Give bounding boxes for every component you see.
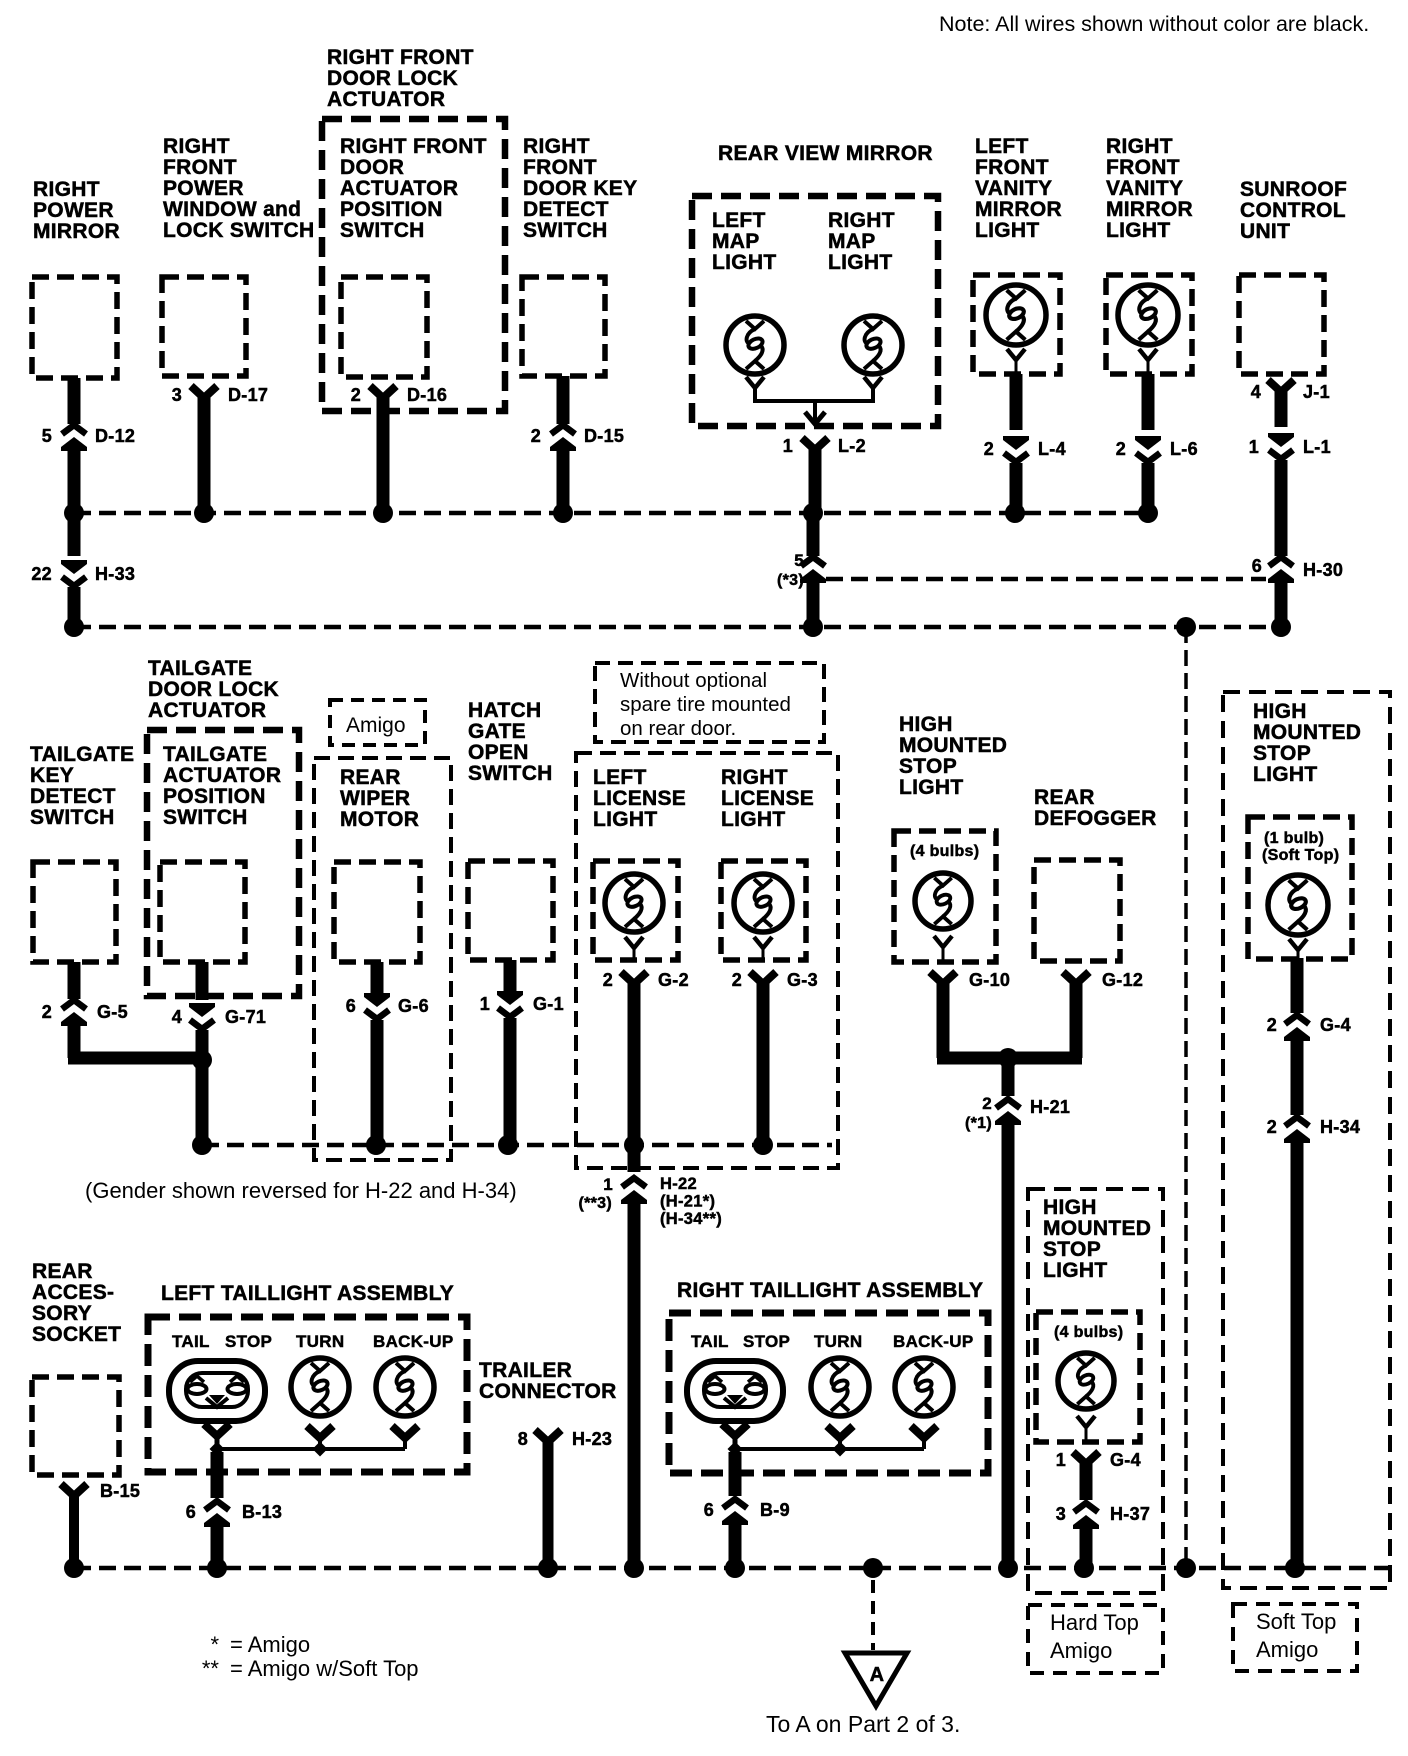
svg-text:B-15: B-15 bbox=[100, 1481, 140, 1501]
wire G-6 to mid bus bbox=[371, 1020, 384, 1145]
component HATCH GATE OPEN SWITCH box bbox=[468, 861, 553, 960]
svg-text:H-21: H-21 bbox=[1030, 1097, 1070, 1117]
wire to connector *3 bbox=[807, 513, 820, 556]
connector B-15 bbox=[61, 1484, 87, 1496]
node bottom bus H-37 bbox=[1074, 1558, 1094, 1578]
connector fork right tail stop bbox=[722, 1424, 748, 1436]
wire L-6 to bus node bbox=[1142, 463, 1155, 513]
connector D-17 pin 3 bbox=[191, 386, 217, 398]
svg-text:(4 bulbs): (4 bulbs) bbox=[910, 843, 979, 860]
bulb right map light bbox=[844, 316, 902, 374]
wire G-12 elbow to junction bbox=[1070, 980, 1083, 1058]
svg-text:TURN: TURN bbox=[814, 1332, 862, 1351]
bulb soft top stop light bbox=[1268, 875, 1328, 935]
svg-text:22: 22 bbox=[31, 564, 52, 584]
component RIGHT FRONT POWER WINDOW and LOCK SWITCH box bbox=[162, 277, 246, 376]
svg-text:**: ** bbox=[202, 1656, 220, 1681]
connector B-9 pin 6 bbox=[722, 1499, 748, 1525]
svg-text:2: 2 bbox=[1267, 1117, 1277, 1137]
bus wire upper (connector row) bbox=[74, 511, 1148, 516]
svg-text:H-30: H-30 bbox=[1303, 560, 1343, 580]
svg-text:To A on Part 2 of 3.: To A on Part 2 of 3. bbox=[766, 1711, 960, 1737]
bulb left vanity light bbox=[986, 285, 1046, 345]
svg-text:= Amigo: = Amigo bbox=[230, 1632, 310, 1657]
svg-text:6: 6 bbox=[1252, 556, 1262, 576]
bus wire lower bbox=[74, 625, 1281, 630]
node G-1 mid bus junction bbox=[498, 1135, 518, 1155]
connector H-23 pin 8 bbox=[535, 1430, 561, 1442]
node D-17 bus junction bbox=[194, 503, 214, 523]
node bottom bus riser bbox=[1176, 1558, 1196, 1578]
svg-text:1: 1 bbox=[480, 994, 490, 1014]
wire junction to H-21 bbox=[1002, 1058, 1015, 1096]
wire key detect to G-5 bbox=[68, 962, 81, 999]
svg-text:D-15: D-15 bbox=[584, 426, 624, 446]
node G-3 mid bus junction bbox=[753, 1135, 773, 1155]
svg-text:G-6: G-6 bbox=[398, 996, 429, 1016]
svg-text:2: 2 bbox=[984, 439, 994, 459]
node bottom bus A bbox=[863, 1558, 883, 1578]
wire H-37 to bottom bus bbox=[1080, 1528, 1093, 1568]
wire to off-page connector A bbox=[871, 1580, 875, 1650]
wire *3 connector to lower bus bbox=[807, 582, 820, 627]
bulb right vanity light bbox=[1118, 285, 1178, 345]
connector L-2 pin 1 bbox=[802, 438, 828, 450]
svg-text:LEFT TAILLIGHT ASSEMBLY: LEFT TAILLIGHT ASSEMBLY bbox=[161, 1282, 454, 1305]
svg-text:L-1: L-1 bbox=[1303, 437, 1331, 457]
node D-16 bus junction bbox=[373, 503, 393, 523]
wire B-9 to bottom bus bbox=[729, 1524, 742, 1568]
connector fork right turn bbox=[827, 1426, 853, 1438]
wire G-4 to H-37 bbox=[1080, 1460, 1093, 1500]
component TAILGATE DOOR LOCK ACTUATOR outer box bbox=[147, 730, 299, 996]
node bottom bus H-21 bbox=[998, 1558, 1018, 1578]
wire right map light lead bbox=[864, 377, 882, 388]
svg-text:B-13: B-13 bbox=[242, 1502, 282, 1522]
connector G-12 bbox=[1063, 972, 1089, 984]
connector G-71 pin 4 bbox=[189, 1003, 215, 1029]
component hard top outer box bbox=[1028, 1189, 1163, 1593]
wire D-15 to bus node bbox=[557, 450, 570, 513]
node lower bus branch junction bbox=[1176, 617, 1196, 637]
component RIGHT LICENSE LIGHT box bbox=[721, 861, 806, 960]
svg-text:TURN: TURN bbox=[296, 1332, 344, 1351]
bulb high mounted stop light bbox=[915, 873, 971, 929]
connector D-12 pin 5 bbox=[61, 425, 87, 451]
wire H-23 to bottom bus bbox=[543, 1438, 554, 1568]
svg-text:G-12: G-12 bbox=[1102, 970, 1143, 990]
bus wire *3 to H-30 bbox=[826, 577, 1266, 582]
svg-text:3: 3 bbox=[1056, 1504, 1066, 1524]
svg-text:A: A bbox=[870, 1664, 885, 1686]
connector G-5 pin 2 bbox=[61, 1000, 87, 1026]
svg-text:5: 5 bbox=[794, 551, 804, 570]
node bottom bus B-15 bbox=[64, 1558, 84, 1578]
svg-text:2: 2 bbox=[982, 1094, 992, 1113]
svg-text:6: 6 bbox=[346, 996, 356, 1016]
connector G-4 pin 1 hard top bbox=[1073, 1452, 1099, 1464]
connector H-30 pin 6 bbox=[1268, 557, 1294, 583]
svg-text:8: 8 bbox=[518, 1429, 528, 1449]
wire L-1 to H-30 bbox=[1275, 460, 1288, 556]
svg-text:H-33: H-33 bbox=[95, 564, 135, 584]
svg-text:H-37: H-37 bbox=[1110, 1504, 1150, 1524]
wire left map light lead bbox=[746, 377, 764, 388]
wire D-17 to bus node bbox=[198, 394, 211, 513]
wire L-4 to bus node bbox=[1010, 463, 1023, 513]
svg-text:G-71: G-71 bbox=[225, 1007, 266, 1027]
off-page connector A triangle bbox=[845, 1653, 907, 1706]
bus wire middle bbox=[202, 1143, 832, 1148]
svg-text:Amigo: Amigo bbox=[346, 714, 406, 737]
wire right power mirror to D-12 bbox=[68, 378, 81, 424]
wire key detect switch to D-15 bbox=[557, 376, 570, 424]
wire soft top bulb to G-4 bbox=[1291, 958, 1304, 1013]
svg-text:4: 4 bbox=[172, 1007, 182, 1027]
component soft top high mounted stop light outer box bbox=[1223, 692, 1390, 1588]
label Hard Top Amigo box bbox=[1028, 1605, 1163, 1673]
wire vanity left to L-4 bbox=[1010, 374, 1023, 430]
svg-text:L-4: L-4 bbox=[1038, 439, 1066, 459]
node rear view mirror lower bus junction bbox=[803, 617, 823, 637]
svg-text:BACK-UP: BACK-UP bbox=[893, 1332, 973, 1351]
svg-text:(Soft Top): (Soft Top) bbox=[1262, 847, 1339, 864]
svg-text:RIGHT TAILLIGHT ASSEMBLY: RIGHT TAILLIGHT ASSEMBLY bbox=[677, 1279, 983, 1302]
wire D-12 to bus node bbox=[68, 450, 81, 513]
svg-text:REAR VIEW MIRROR: REAR VIEW MIRROR bbox=[718, 142, 933, 165]
wire J-1 to L-1 bbox=[1275, 390, 1288, 427]
wire wiper motor to G-6 bbox=[371, 962, 384, 996]
connector H-34 pin 2 bbox=[1284, 1117, 1310, 1143]
svg-text:(1 bulb): (1 bulb) bbox=[1264, 830, 1324, 847]
component hard top stop light bulb box bbox=[1036, 1312, 1140, 1442]
svg-text:(*3): (*3) bbox=[777, 572, 804, 589]
svg-text:= Amigo w/Soft Top: = Amigo w/Soft Top bbox=[230, 1656, 419, 1681]
node bottom bus H-23 bbox=[538, 1558, 558, 1578]
svg-text:L-2: L-2 bbox=[838, 436, 866, 456]
node bottom bus B-13 bbox=[207, 1558, 227, 1578]
svg-text:1: 1 bbox=[1249, 437, 1259, 457]
svg-text:H-23: H-23 bbox=[572, 1429, 612, 1449]
connector G-1 pin 1 bbox=[497, 991, 523, 1017]
svg-text:TAIL: TAIL bbox=[172, 1332, 210, 1351]
bulb left tail stop dual bbox=[169, 1361, 265, 1421]
svg-text:STOP: STOP bbox=[743, 1332, 790, 1351]
wire H-21 to bottom bus bbox=[1002, 1124, 1015, 1568]
svg-text:6: 6 bbox=[186, 1502, 196, 1522]
node lower bus left junction bbox=[64, 617, 84, 637]
component RIGHT FRONT VANITY MIRROR LIGHT box bbox=[1106, 275, 1192, 374]
wire hatch switch to G-1 bbox=[504, 960, 517, 994]
wire B-15 to bottom bus bbox=[69, 1492, 79, 1568]
connector D-15 pin 2 bbox=[550, 425, 576, 451]
wire G-10 elbow to junction bbox=[937, 980, 950, 1058]
node L-4 bus junction bbox=[1005, 503, 1025, 523]
wire vanity right to L-6 bbox=[1142, 374, 1155, 430]
connector H-21 pin 2 (*1) bbox=[995, 1099, 1021, 1125]
component RIGHT FRONT DOOR KEY DETECT SWITCH box bbox=[522, 277, 605, 376]
svg-text:G-4: G-4 bbox=[1110, 1450, 1141, 1470]
wire map lights junction bbox=[755, 399, 873, 403]
component RIGHT FRONT DOOR ACTUATOR POSITION SWITCH box bbox=[341, 277, 427, 377]
connector L-1 pin 1 bbox=[1268, 433, 1294, 459]
svg-text:4: 4 bbox=[1251, 382, 1261, 402]
svg-text:2: 2 bbox=[531, 426, 541, 446]
connector fork right backup bbox=[911, 1426, 937, 1438]
bulb right backup bbox=[895, 1358, 953, 1416]
component REAR WIPER MOTOR outer box bbox=[314, 758, 451, 1160]
wire G-4 to H-34 bbox=[1291, 1040, 1304, 1115]
svg-text:3: 3 bbox=[172, 385, 182, 405]
connector fork left turn bbox=[307, 1426, 333, 1438]
wire G-5 elbow to actuator wire bbox=[68, 1025, 81, 1058]
component RIGHT POWER MIRROR box bbox=[32, 277, 117, 378]
connector G-4 pin 2 bbox=[1284, 1015, 1310, 1041]
component SUNROOF CONTROL UNIT box bbox=[1239, 275, 1324, 374]
svg-text:B-9: B-9 bbox=[760, 1500, 790, 1520]
bulb left backup bbox=[376, 1358, 434, 1416]
svg-text:G-10: G-10 bbox=[969, 970, 1010, 990]
svg-text:G-4: G-4 bbox=[1320, 1015, 1351, 1035]
component HIGH MOUNTED STOP LIGHT box bbox=[894, 831, 996, 962]
component REAR ACCESSORY SOCKET box bbox=[32, 1377, 119, 1475]
svg-text:BACK-UP: BACK-UP bbox=[373, 1332, 453, 1351]
wire right taillight to B-9 bbox=[729, 1452, 742, 1496]
connector G-6 pin 6 bbox=[364, 993, 390, 1019]
svg-text:(Gender shown reversed for H-: (Gender shown reversed for H-22 and H-34… bbox=[85, 1178, 517, 1203]
component license lights outer box bbox=[576, 753, 838, 1168]
svg-text:G-3: G-3 bbox=[787, 970, 818, 990]
component TAILGATE KEY DETECT SWITCH box bbox=[33, 862, 116, 962]
node bottom bus H-34 bbox=[1285, 1558, 1305, 1578]
svg-text:L-6: L-6 bbox=[1170, 439, 1198, 459]
connector G-2 pin 2 bbox=[621, 972, 647, 984]
component soft top stop light bulb box bbox=[1248, 817, 1352, 959]
node D-12 bus junction bbox=[64, 503, 84, 523]
connector D-16 pin 2 bbox=[370, 386, 396, 398]
node rear view mirror bus junction bbox=[803, 503, 823, 523]
component REAR DEFOGGER box bbox=[1034, 860, 1120, 961]
connector fork left tail stop bbox=[204, 1424, 230, 1436]
connector L-4 pin 2 bbox=[1003, 436, 1029, 462]
node stop light defogger junction bbox=[998, 1048, 1018, 1068]
wire position switch to G-71 bbox=[196, 962, 209, 1000]
wire G-71 to mid bus bbox=[196, 1030, 209, 1145]
wire D-16 to bus node bbox=[377, 394, 390, 513]
svg-text:D-12: D-12 bbox=[95, 426, 135, 446]
wire D-12 node to H-33 bbox=[68, 513, 81, 556]
svg-text:(*1): (*1) bbox=[965, 1115, 992, 1132]
connector B-13 pin 6 bbox=[204, 1501, 230, 1527]
svg-text:G-5: G-5 bbox=[97, 1002, 128, 1022]
bus wire vertical riser bbox=[1184, 627, 1188, 1568]
node tailgate actuator junction bbox=[192, 1050, 212, 1070]
node G-71 mid bus junction bbox=[192, 1135, 212, 1155]
node G-2 mid bus junction bbox=[624, 1135, 644, 1155]
node bottom bus B-9 bbox=[725, 1558, 745, 1578]
component RIGHT FRONT DOOR LOCK ACTUATOR outer box bbox=[322, 119, 505, 411]
component Amigo tag box bbox=[330, 700, 425, 745]
wire mid bus to H-22 bbox=[628, 1145, 641, 1172]
bulb left map light bbox=[726, 316, 784, 374]
svg-text:*: * bbox=[210, 1632, 219, 1657]
svg-text:1: 1 bbox=[603, 1175, 613, 1194]
node D-15 bus junction bbox=[553, 503, 573, 523]
svg-text:6: 6 bbox=[704, 1500, 714, 1520]
svg-text:(**3): (**3) bbox=[578, 1195, 612, 1212]
svg-text:2: 2 bbox=[1267, 1015, 1277, 1035]
connector fork left backup bbox=[392, 1426, 418, 1438]
wire H-34 to bottom bus bbox=[1291, 1142, 1304, 1568]
component REAR VIEW MIRROR box bbox=[692, 196, 938, 426]
svg-text:TAIL: TAIL bbox=[691, 1332, 729, 1351]
component TAILGATE ACTUATOR POSITION SWITCH box bbox=[160, 862, 245, 962]
wire left taillight common bbox=[217, 1447, 405, 1451]
connector H-33 pin 22 bbox=[61, 560, 87, 586]
connector pin 5 (*3) bbox=[800, 557, 826, 583]
node bottom bus H-22 bbox=[624, 1558, 644, 1578]
svg-text:(4 bulbs): (4 bulbs) bbox=[1054, 1324, 1123, 1341]
svg-text:Note: All wires shown without: Note: All wires shown without color are … bbox=[939, 12, 1369, 36]
node G-6 mid bus junction bbox=[366, 1135, 386, 1155]
bulb hard top stop light bbox=[1058, 1353, 1114, 1409]
wire G-2 to mid bus bbox=[628, 980, 641, 1145]
label Soft Top Amigo box bbox=[1233, 1604, 1357, 1671]
svg-text:5: 5 bbox=[42, 426, 52, 446]
svg-text:2: 2 bbox=[1116, 439, 1126, 459]
svg-text:H-34: H-34 bbox=[1320, 1117, 1360, 1137]
svg-text:G-2: G-2 bbox=[658, 970, 689, 990]
connector J-1 pin 4 bbox=[1268, 380, 1294, 392]
svg-text:1: 1 bbox=[783, 436, 793, 456]
wire H-30 to lower bus bbox=[1275, 582, 1288, 627]
component LEFT LICENSE LIGHT box bbox=[593, 861, 678, 960]
svg-text:STOP: STOP bbox=[225, 1332, 272, 1351]
svg-text:D-17: D-17 bbox=[228, 385, 268, 405]
wire G-3 to mid bus bbox=[757, 980, 770, 1145]
component REAR WIPER MOTOR box bbox=[334, 862, 420, 962]
svg-text:2: 2 bbox=[351, 385, 361, 405]
connector G-10 bbox=[930, 972, 956, 984]
connector H-22 pin 1 (**3) bbox=[621, 1178, 647, 1204]
svg-text:2: 2 bbox=[42, 1002, 52, 1022]
connector H-37 pin 3 bbox=[1073, 1503, 1099, 1529]
svg-text:1: 1 bbox=[1056, 1450, 1066, 1470]
wire H-22 to bottom bus bbox=[628, 1203, 641, 1568]
component RIGHT TAILLIGHT ASSEMBLY box bbox=[669, 1313, 988, 1473]
bulb right turn bbox=[811, 1358, 869, 1416]
svg-text:2: 2 bbox=[603, 970, 613, 990]
bulb right license light bbox=[734, 874, 792, 932]
bus wire bottom bbox=[74, 1566, 1390, 1571]
svg-text:2: 2 bbox=[732, 970, 742, 990]
wire left taillight to B-13 bbox=[211, 1452, 224, 1498]
wire right taillight common bbox=[735, 1447, 924, 1451]
bulb left turn bbox=[291, 1358, 349, 1416]
connector L-6 pin 2 bbox=[1135, 436, 1161, 462]
note without optional spare tire box bbox=[595, 663, 824, 742]
wire L-2 to bus node bbox=[809, 446, 822, 513]
wire B-13 to bottom bus bbox=[211, 1526, 224, 1568]
wire G-1 to mid bus bbox=[504, 1018, 517, 1145]
component LEFT FRONT VANITY MIRROR LIGHT box bbox=[973, 275, 1060, 374]
bulb right tail stop dual bbox=[687, 1361, 783, 1421]
bulb left license light bbox=[605, 874, 663, 932]
svg-text:G-1: G-1 bbox=[533, 994, 564, 1014]
node L-6 bus junction bbox=[1138, 503, 1158, 523]
svg-text:J-1: J-1 bbox=[1303, 382, 1330, 402]
wire H-33 to lower bus bbox=[68, 587, 81, 627]
node sunroof lower bus junction bbox=[1271, 617, 1291, 637]
component LEFT TAILLIGHT ASSEMBLY box bbox=[148, 1317, 467, 1472]
svg-text:D-16: D-16 bbox=[407, 385, 447, 405]
connector G-3 pin 2 bbox=[750, 972, 776, 984]
